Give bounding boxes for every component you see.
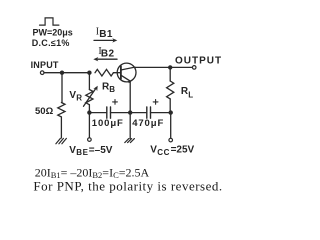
- ground (below emitter): [125, 139, 135, 143]
- plus sign C1: [113, 100, 118, 105]
- rail segment left: [89, 112, 106, 114]
- wire node A down to 50 ohm resistor: [61, 73, 63, 103]
- svg-text:PW=20μs: PW=20μs: [33, 27, 73, 37]
- wire emitter junction to ground: [129, 113, 131, 139]
- svg-text:OUTPUT: OUTPUT: [175, 56, 222, 67]
- node E (VBE junction): [87, 110, 91, 114]
- svg-text:B2: B2: [101, 49, 115, 60]
- wire RB to base: [113, 72, 121, 74]
- node F (VCC junction): [169, 110, 173, 114]
- capacitor C1 100uF: [107, 107, 111, 118]
- svg-text:D.C.≤1%: D.C.≤1%: [32, 38, 70, 48]
- wire input to node A: [44, 72, 62, 74]
- svg-text:50Ω: 50Ω: [35, 106, 54, 117]
- svg-text:100μF: 100μF: [92, 118, 124, 129]
- svg-text:V: V: [69, 145, 76, 156]
- svg-text:B1: B1: [99, 29, 113, 40]
- capacitor C2 470uF: [147, 107, 151, 118]
- label RL: [181, 86, 193, 100]
- resistor RB: [95, 69, 113, 76]
- node B: [87, 71, 91, 75]
- svg-text:V: V: [150, 145, 157, 156]
- resistor 50ohm: [58, 103, 65, 117]
- wire VBE junction down: [88, 113, 90, 138]
- label VCC=25V: [150, 145, 194, 157]
- label RB: [102, 82, 115, 95]
- svg-text:R: R: [76, 94, 82, 103]
- VR arrow: [84, 86, 98, 107]
- current label IB1: [96, 27, 113, 40]
- emitter wire down to rail: [129, 81, 131, 112]
- rail segment middle: [111, 112, 147, 114]
- svg-text:For PNP, the polarity is rever: For PNP, the polarity is reversed.: [33, 178, 222, 193]
- output terminal: [192, 66, 196, 70]
- wire node C down to RL: [169, 67, 171, 81]
- transistor Q1: [117, 63, 136, 83]
- VCC terminal: [169, 138, 173, 142]
- wire VR to rail: [88, 105, 90, 113]
- current label IB2: [98, 46, 114, 60]
- variable resistor VR: [86, 90, 93, 105]
- svg-text:470μF: 470μF: [132, 118, 164, 129]
- arrow IB1 (right): [94, 38, 117, 42]
- ground (below 50ohm): [56, 138, 67, 143]
- wire node B down to VR: [88, 73, 90, 90]
- wire node A to node B: [62, 72, 89, 74]
- VBE terminal: [88, 138, 92, 142]
- svg-text:B: B: [109, 85, 115, 94]
- svg-text:=25V: =25V: [171, 145, 195, 156]
- rail segment right: [151, 112, 171, 114]
- node D (emitter junction): [128, 110, 132, 114]
- label VR: [69, 90, 82, 102]
- input terminal: [40, 71, 44, 75]
- collector wire to output: [135, 66, 194, 68]
- node C (output junction): [168, 65, 172, 69]
- svg-text:L: L: [188, 90, 193, 99]
- plus sign C2: [153, 100, 158, 105]
- caption line 1: 20IB1=-20IB2=IC=2.5A: [35, 165, 150, 180]
- resistor RL: [167, 81, 174, 99]
- label VBE=-5V: [69, 145, 112, 157]
- svg-text:INPUT: INPUT: [31, 60, 59, 70]
- wire RL to rail: [169, 99, 171, 113]
- svg-text:BE: BE: [76, 148, 88, 157]
- pulse waveform symbol: [40, 18, 59, 25]
- wire 50ohm to ground: [60, 117, 62, 138]
- arrow IB2 (left): [93, 57, 117, 61]
- wire VCC junction down: [170, 113, 172, 139]
- svg-text:=–5V: =–5V: [89, 145, 113, 156]
- node A: [60, 71, 64, 75]
- svg-text:CC: CC: [157, 148, 170, 157]
